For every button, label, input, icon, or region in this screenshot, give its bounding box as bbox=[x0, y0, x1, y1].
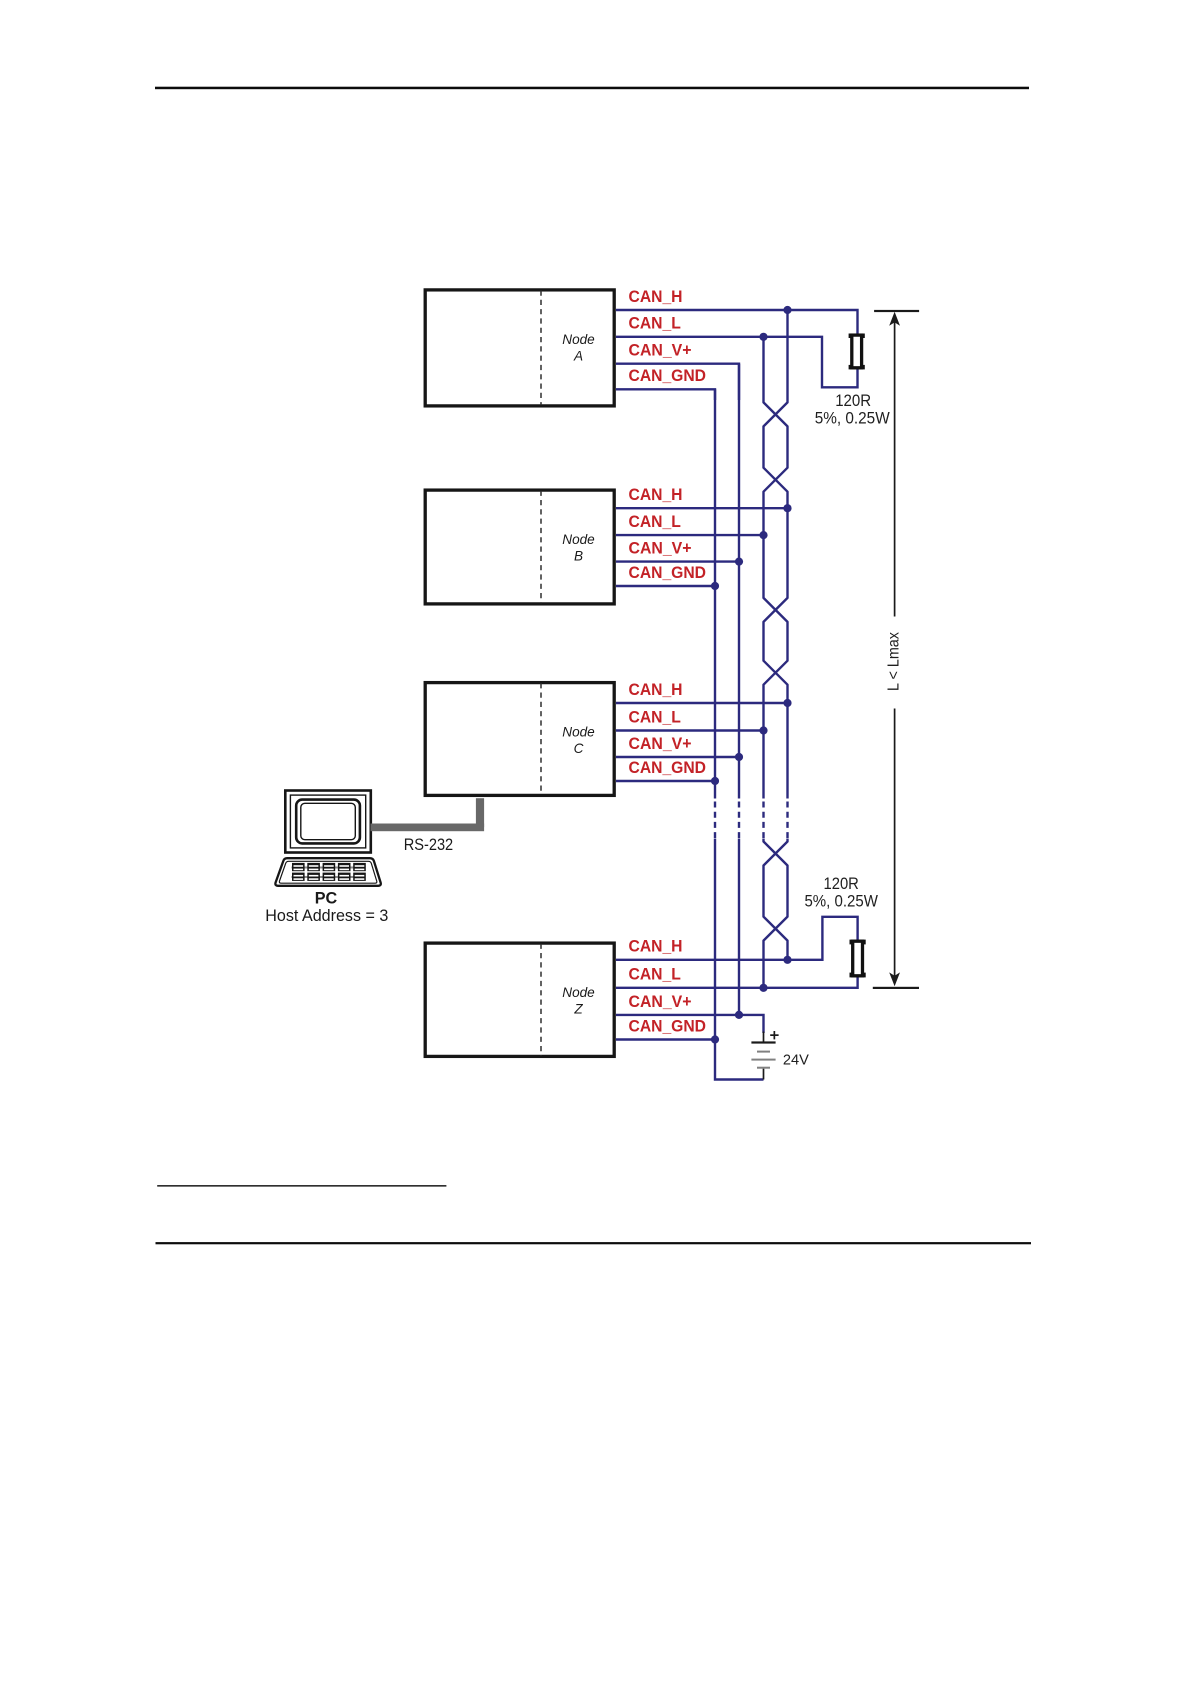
junction node Z CAN_GND bbox=[711, 1035, 719, 1043]
svg-text:CAN_L: CAN_L bbox=[629, 315, 681, 333]
wire CAN_H node C stub bbox=[616, 702, 788, 704]
wire CAN_V+ node B stub bbox=[616, 560, 739, 562]
svg-text:CAN_GND: CAN_GND bbox=[629, 1017, 707, 1035]
svg-text:PC: PC bbox=[315, 890, 338, 908]
wire CAN_GND node A stub bbox=[616, 389, 715, 400]
top page rule bbox=[155, 87, 1029, 90]
junction node A CAN_L bbox=[759, 333, 767, 341]
svg-text:CAN_H: CAN_H bbox=[629, 486, 683, 504]
svg-text:CAN_H: CAN_H bbox=[629, 288, 683, 306]
svg-text:L < Lmax: L < Lmax bbox=[885, 632, 902, 691]
node Z box bbox=[425, 943, 614, 1056]
junction node C CAN_L bbox=[759, 726, 767, 734]
svg-text:120R: 120R bbox=[824, 875, 859, 893]
battery B1 24V bbox=[751, 1032, 775, 1080]
wire CAN_H node B stub bbox=[616, 507, 788, 509]
wire CAN_V+ bus vertical bbox=[738, 364, 740, 1015]
svg-text:B: B bbox=[574, 548, 583, 563]
junction node C CAN_GND bbox=[711, 777, 719, 785]
wire CAN_GND node Z to battery minus bbox=[616, 1040, 764, 1080]
bottom page rule bbox=[156, 1242, 1032, 1244]
svg-text:Node: Node bbox=[562, 725, 595, 740]
PC keyboard bbox=[275, 858, 380, 886]
svg-text:CAN_GND: CAN_GND bbox=[629, 367, 707, 385]
svg-text:C: C bbox=[574, 741, 584, 756]
node B box bbox=[425, 490, 614, 604]
wire CAN_L node A to termination R1 bbox=[616, 337, 858, 388]
junction node Z CAN_L bbox=[759, 984, 767, 992]
wire CAN_L node B stub bbox=[616, 534, 764, 536]
junction node B CAN_V+ bbox=[735, 558, 743, 566]
svg-text:CAN_H: CAN_H bbox=[629, 938, 683, 956]
wire twisted pair CAN_L line bbox=[764, 337, 788, 988]
footnote rule bbox=[157, 1185, 446, 1187]
wire RS-232 cable bbox=[371, 798, 485, 831]
svg-text:CAN_V+: CAN_V+ bbox=[629, 993, 692, 1011]
wire CAN_V+ node Z to battery plus bbox=[616, 1015, 764, 1033]
junction node B CAN_H bbox=[783, 504, 791, 512]
svg-text:5%, 0.25W: 5%, 0.25W bbox=[815, 409, 891, 427]
svg-text:CAN_L: CAN_L bbox=[629, 708, 681, 726]
junction node C CAN_H bbox=[783, 699, 791, 707]
junction node B CAN_L bbox=[759, 531, 767, 539]
wire CAN_L node C stub bbox=[616, 729, 764, 731]
svg-text:Node: Node bbox=[562, 985, 595, 1000]
svg-text:CAN_V+: CAN_V+ bbox=[629, 342, 692, 360]
node A box bbox=[425, 290, 614, 406]
PC monitor bbox=[285, 791, 371, 853]
svg-text:CAN_L: CAN_L bbox=[629, 513, 681, 531]
svg-text:Z: Z bbox=[573, 1002, 583, 1017]
node C box bbox=[425, 683, 614, 796]
label battery plus sign bbox=[770, 1031, 778, 1039]
wire CAN_L node Z to termination R2 bbox=[616, 977, 858, 988]
svg-text:120R: 120R bbox=[835, 392, 871, 410]
wire CAN_V+ node A stub bbox=[616, 364, 739, 400]
wire CAN_GND bus vertical bbox=[714, 389, 716, 1040]
svg-text:CAN_L: CAN_L bbox=[629, 966, 681, 984]
svg-text:CAN_GND: CAN_GND bbox=[629, 564, 707, 582]
svg-text:CAN_V+: CAN_V+ bbox=[629, 735, 692, 753]
wire CAN_GND node C stub bbox=[616, 780, 715, 782]
svg-text:RS-232: RS-232 bbox=[404, 836, 454, 854]
wire twisted pair CAN_H line bbox=[764, 310, 788, 960]
svg-text:Node: Node bbox=[562, 332, 595, 347]
junction node A CAN_H bbox=[783, 306, 791, 314]
svg-text:Host Address = 3: Host Address = 3 bbox=[265, 907, 388, 925]
svg-text:A: A bbox=[573, 348, 583, 363]
dimension line L < Lmax bbox=[873, 310, 919, 989]
svg-text:24V: 24V bbox=[783, 1052, 809, 1068]
junction node Z CAN_H bbox=[783, 956, 791, 964]
junction node B CAN_GND bbox=[711, 582, 719, 590]
junction node Z CAN_V+ bbox=[735, 1011, 743, 1019]
junction node C CAN_V+ bbox=[735, 753, 743, 761]
wire CAN_V+ node C stub bbox=[616, 756, 739, 758]
resistor R1 120R top termination bbox=[849, 334, 865, 370]
svg-text:CAN_V+: CAN_V+ bbox=[629, 540, 692, 558]
svg-text:CAN_GND: CAN_GND bbox=[629, 759, 707, 777]
wire CAN_H node A to termination R1 bbox=[616, 310, 858, 334]
resistor R2 120R bottom termination bbox=[850, 940, 866, 978]
wire CAN_GND node B stub bbox=[616, 585, 715, 587]
svg-text:5%, 0.25W: 5%, 0.25W bbox=[804, 893, 878, 911]
wire CAN_H node Z to termination R2 bbox=[616, 917, 858, 960]
svg-text:Node: Node bbox=[562, 532, 595, 547]
svg-text:CAN_H: CAN_H bbox=[629, 681, 683, 699]
